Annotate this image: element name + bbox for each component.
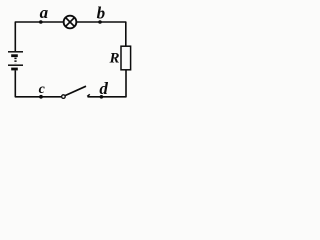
node d (100, 95, 104, 99)
lamp EL1 (64, 16, 77, 29)
switch S (open) pivot (62, 95, 66, 99)
resistor R (121, 46, 131, 70)
node a (39, 20, 43, 24)
svg-text:c: c (39, 82, 46, 97)
node c (39, 95, 43, 99)
switch S fixed contact (87, 94, 90, 96)
svg-text:a: a (40, 3, 49, 22)
svg-text:R: R (109, 50, 120, 66)
wire left-bottom segment (battery to switch) (15, 70, 61, 96)
wire top-left segment (corner to lamp) (15, 22, 63, 51)
wire top-right segment (lamp to corner) (77, 22, 126, 46)
svg-text:d: d (99, 79, 108, 98)
wire bottom-right segment (switch to corner) (88, 70, 127, 97)
battery GB (two cells with dashed continuation) (8, 52, 23, 69)
svg-text:b: b (97, 3, 106, 22)
node b (98, 20, 102, 24)
switch S lever arm (65, 86, 86, 95)
